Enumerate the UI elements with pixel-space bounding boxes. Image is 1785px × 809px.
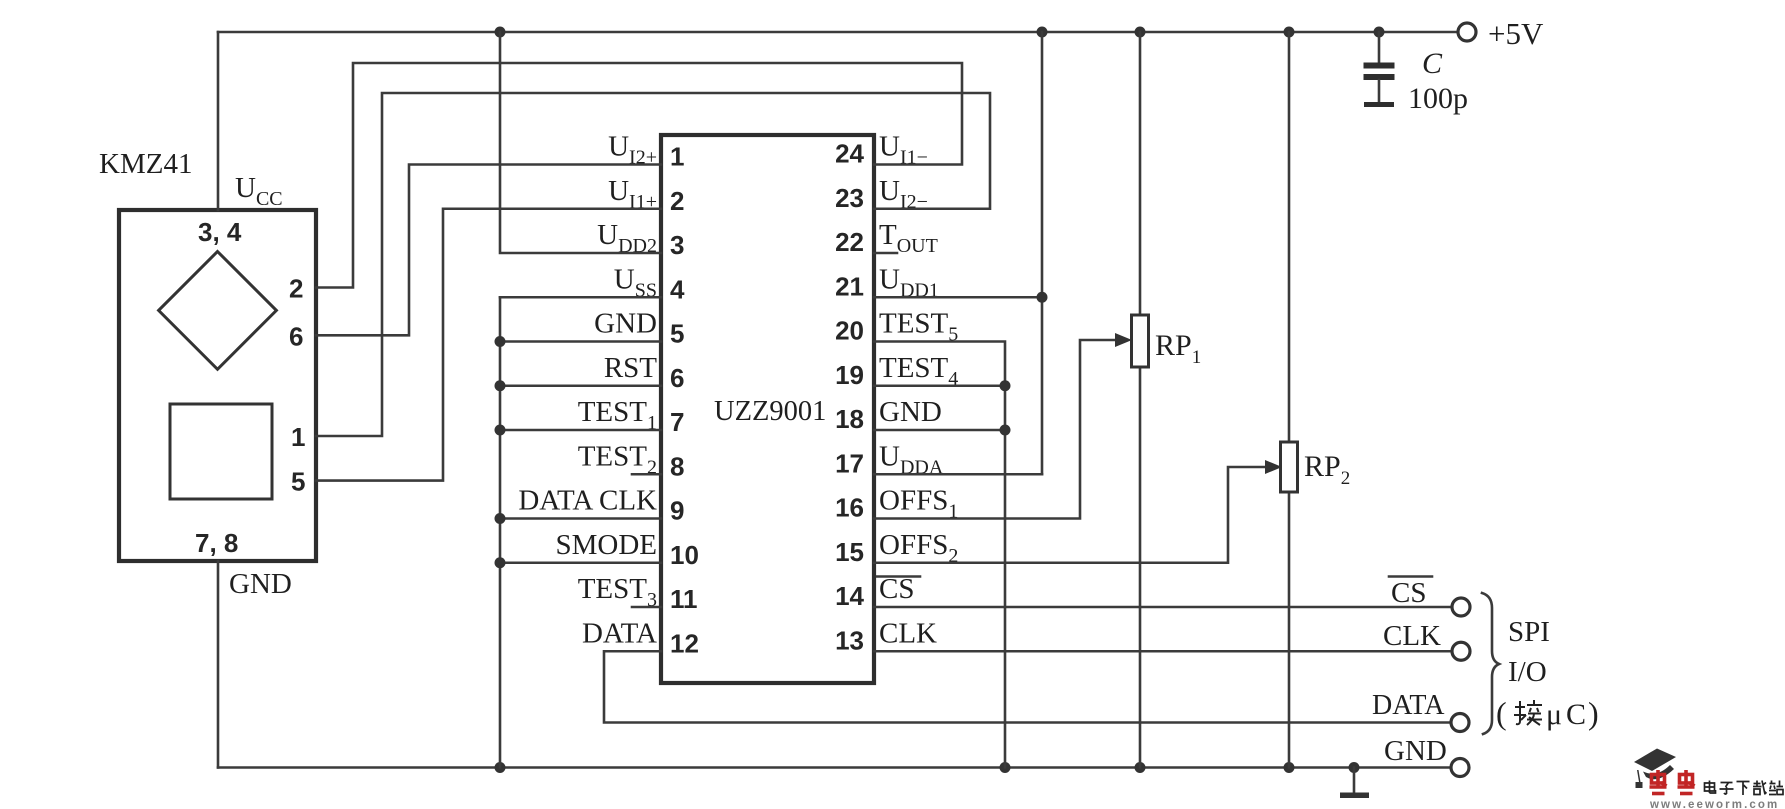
svg-text:5: 5 bbox=[670, 319, 684, 349]
wire U1 pin7 TEST1 bbox=[500, 429, 661, 432]
svg-text:3: 3 bbox=[670, 230, 684, 260]
svg-text:21: 21 bbox=[835, 271, 864, 301]
svg-text:16: 16 bbox=[835, 493, 864, 523]
svg-text:14: 14 bbox=[835, 581, 864, 611]
svg-text:6: 6 bbox=[289, 322, 303, 352]
svg-text:DATA: DATA bbox=[1372, 690, 1445, 721]
capacitor C 100p bbox=[1364, 32, 1395, 107]
svg-text:+5V: +5V bbox=[1488, 16, 1544, 51]
svg-text:22: 22 bbox=[835, 227, 864, 257]
svg-text:1: 1 bbox=[670, 142, 684, 172]
RP1 wiper arrow bbox=[1115, 333, 1132, 347]
wire KMZ41 pin2 to U1 pin24 (UI1-) bbox=[316, 63, 962, 288]
terminal CS bbox=[1389, 577, 1470, 617]
svg-text:9: 9 bbox=[670, 496, 684, 526]
svg-text:1: 1 bbox=[291, 422, 305, 452]
KMZ41 bridge diamond bbox=[159, 252, 277, 370]
node GND bus junctions bbox=[495, 336, 506, 568]
terminal DATA bbox=[1372, 690, 1469, 732]
svg-text:KMZ41: KMZ41 bbox=[99, 148, 192, 180]
wire U1 pin4 USS bbox=[500, 296, 661, 299]
sensor KMZ41 body bbox=[119, 210, 316, 561]
svg-text:10: 10 bbox=[670, 540, 699, 570]
wire U1 pin5 GND bbox=[500, 340, 661, 343]
svg-text:17: 17 bbox=[835, 448, 864, 478]
svg-text:23: 23 bbox=[835, 183, 864, 213]
terminal GND bbox=[1384, 735, 1469, 777]
op-amp U1 UZZ9001 body bbox=[661, 135, 874, 683]
RP2 wiper arrow bbox=[1265, 460, 1282, 474]
svg-text:19: 19 bbox=[835, 360, 864, 390]
wire KMZ41 pin6 to U1 pin1 (UI2+) bbox=[316, 165, 661, 336]
wire U1 pin12 DATA to DATA terminal bbox=[604, 651, 1450, 722]
resistor RP1 (potentiometer) bbox=[1132, 32, 1149, 768]
svg-text:CLK: CLK bbox=[1383, 620, 1441, 652]
svg-text:8: 8 bbox=[670, 451, 684, 481]
svg-text:DATA: DATA bbox=[582, 617, 657, 649]
watermark 电子下载站 text bbox=[1705, 781, 1784, 796]
svg-text:SMODE: SMODE bbox=[555, 529, 657, 561]
svg-text:6: 6 bbox=[670, 363, 684, 393]
svg-text:(: ( bbox=[1496, 695, 1507, 731]
svg-text:UZZ9001: UZZ9001 bbox=[714, 396, 826, 427]
wire U1 pin20 TEST5 / pin19 TEST4 / pin18 GND to GND rail bbox=[874, 342, 1011, 768]
svg-text:CS: CS bbox=[1391, 577, 1426, 609]
wire +5V top rail bbox=[218, 31, 1459, 34]
wire U1 pin8 TEST2 stub bbox=[632, 473, 661, 476]
wire UCC to +5V rail bbox=[217, 32, 220, 210]
svg-text:13: 13 bbox=[835, 625, 864, 655]
svg-text:GND: GND bbox=[879, 396, 942, 428]
wire KMZ41 pin5 to U1 pin2 (UI1+) bbox=[316, 209, 661, 481]
svg-text:7, 8: 7, 8 bbox=[195, 528, 238, 558]
wire U1 pin21 UDD1 / pin17 UDDA to +5V rail bbox=[874, 32, 1048, 474]
watermark 虫虫 characters bbox=[1650, 770, 1667, 794]
wire U1 pin9 DATA CLK bbox=[500, 517, 661, 520]
svg-text:): ) bbox=[1588, 695, 1599, 731]
wire U1 pin15 OFFS2 to RP2 wiper bbox=[874, 467, 1266, 563]
svg-text:μ: μ bbox=[1546, 698, 1562, 731]
svg-text:DATA CLK: DATA CLK bbox=[518, 485, 657, 517]
wire U1 pin16 OFFS1 to RP1 wiper bbox=[874, 340, 1118, 519]
svg-text:GND: GND bbox=[1384, 735, 1447, 767]
svg-text:2: 2 bbox=[289, 274, 303, 304]
svg-text:18: 18 bbox=[835, 404, 864, 434]
wire KMZ41 GND to bottom rail bbox=[217, 561, 220, 768]
svg-text:4: 4 bbox=[670, 274, 685, 304]
svg-text:12: 12 bbox=[670, 628, 699, 658]
watermark graduation cap logo bbox=[1634, 749, 1676, 789]
svg-text:GND: GND bbox=[594, 308, 657, 340]
svg-text:20: 20 bbox=[835, 316, 864, 346]
svg-text:11: 11 bbox=[670, 584, 698, 614]
svg-text:www.eeworm.com: www.eeworm.com bbox=[1649, 799, 1779, 809]
label (接 mu C) bbox=[1496, 695, 1599, 731]
svg-text:15: 15 bbox=[835, 537, 864, 567]
svg-text:SPI: SPI bbox=[1508, 616, 1550, 648]
wire U1 pin13 CLK to SPI CLK terminal bbox=[874, 650, 1452, 653]
wire USS/GND bus vertical (pins 4,5,6,7,9,10 to GND rail) bbox=[499, 297, 502, 767]
wire U1 pin14 CS to SPI CS terminal bbox=[874, 606, 1452, 609]
wire U1 pin11 TEST3 stub bbox=[632, 606, 661, 609]
terminal CLK bbox=[1383, 620, 1470, 660]
terminal +5V bbox=[1458, 16, 1544, 51]
wire U1 pin6 RST bbox=[500, 384, 661, 387]
svg-text:C: C bbox=[1566, 698, 1586, 731]
svg-text:CLK: CLK bbox=[879, 617, 937, 649]
svg-text:RST: RST bbox=[604, 352, 657, 384]
wire +5V rail to U1 pin3 (UDD2) bbox=[500, 32, 661, 253]
node GND rail junctions bbox=[495, 762, 1360, 773]
svg-text:2: 2 bbox=[670, 186, 684, 216]
svg-text:I/O: I/O bbox=[1508, 656, 1547, 688]
overline for pin14 CS label bbox=[877, 575, 920, 578]
KMZ41 compensation square bbox=[170, 404, 272, 499]
svg-text:7: 7 bbox=[670, 407, 684, 437]
wire U1 pin22 TOUT stub bbox=[874, 252, 897, 255]
svg-text:3, 4: 3, 4 bbox=[198, 217, 242, 247]
svg-text:C: C bbox=[1422, 47, 1443, 80]
svg-text:100p: 100p bbox=[1408, 82, 1468, 115]
svg-text:GND: GND bbox=[229, 568, 292, 600]
wire U1 pin10 SMODE bbox=[500, 561, 661, 564]
wire GND bottom rail bbox=[218, 766, 1451, 769]
SPI brace bbox=[1482, 593, 1499, 734]
node +5V rail junctions bbox=[495, 27, 1385, 38]
svg-text:24: 24 bbox=[835, 139, 864, 169]
resistor RP2 (potentiometer) bbox=[1281, 32, 1298, 768]
wire KMZ41 pin1 to U1 pin23 (UI2-) bbox=[316, 93, 990, 436]
ground symbol bbox=[1340, 768, 1369, 799]
svg-text:5: 5 bbox=[291, 467, 305, 497]
